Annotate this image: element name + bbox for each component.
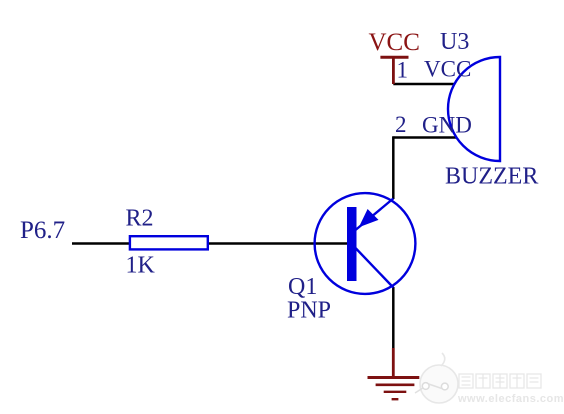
svg-text:2: 2 — [395, 112, 407, 137]
svg-text:PNP: PNP — [287, 298, 331, 324]
svg-text:U3: U3 — [440, 29, 469, 55]
svg-text:Q1: Q1 — [288, 274, 317, 300]
svg-text:BUZZER: BUZZER — [445, 164, 538, 190]
svg-text:VCC: VCC — [369, 29, 420, 56]
svg-text:VCC: VCC — [424, 57, 471, 82]
svg-text:1: 1 — [397, 58, 409, 83]
svg-text:P6.7: P6.7 — [20, 217, 65, 244]
svg-text:www.elecfans.com: www.elecfans.com — [457, 393, 564, 405]
svg-text:GND: GND — [422, 113, 472, 138]
svg-text:R2: R2 — [126, 206, 154, 232]
svg-text:1K: 1K — [126, 253, 156, 279]
